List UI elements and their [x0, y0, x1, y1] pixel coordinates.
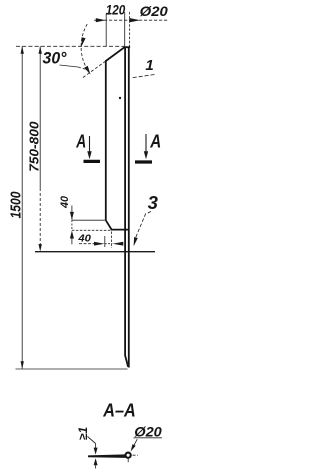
ground line	[35, 251, 155, 253]
svg-text:≥1: ≥1	[76, 427, 90, 441]
svg-text:30°: 30°	[43, 50, 67, 68]
30 deg arc	[81, 24, 89, 73]
30 deg leader dashed continuation	[78, 67, 88, 70]
dimension 40 horizontal	[79, 243, 94, 245]
dimension 120 line	[94, 19, 168, 21]
diameter 20 leader	[133, 439, 138, 448]
svg-text:120: 120	[106, 2, 126, 18]
svg-text:750-800: 750-800	[26, 121, 41, 172]
svg-text:A: A	[149, 130, 161, 151]
30 deg arrow on horizontal	[82, 37, 86, 46]
leader for label 3	[136, 212, 151, 238]
rod item 3 right edge	[128, 47, 130, 367]
svg-text:Ø20: Ø20	[140, 3, 168, 19]
extension line rod right	[129, 12, 131, 47]
top level extension line	[16, 45, 125, 47]
circle centerline bottom	[127, 459, 129, 462]
thickness dim >=1 top arrow	[88, 437, 96, 444]
svg-text:1: 1	[145, 57, 153, 74]
rod cross-section circle	[126, 453, 131, 458]
rod item 3 left edge	[125, 47, 128, 367]
dimension 750-800 line	[39, 46, 41, 188]
svg-text:A–A: A–A	[102, 400, 135, 421]
chamfer extension dashed	[83, 61, 107, 78]
dimension 120 right arrow	[129, 18, 140, 22]
bottom tip extension line	[16, 368, 128, 370]
30 deg arrow on chamfer extension	[84, 66, 90, 75]
30 deg leader underline	[60, 65, 79, 67]
leader for label 1	[132, 75, 155, 78]
thickness dim >=1 bottom arrow	[94, 458, 98, 465]
extension line rod left	[124, 12, 126, 47]
svg-text:3: 3	[148, 192, 159, 213]
svg-text:40: 40	[59, 195, 71, 209]
svg-text:1500: 1500	[7, 191, 24, 219]
section cut mark left	[84, 160, 101, 163]
extension line chamfer start down	[104, 236, 106, 247]
extension line chamfer top	[72, 219, 106, 221]
plate cross-section bar	[88, 454, 126, 458]
diameter 20 underline	[134, 437, 163, 439]
extension line plate bottom left	[72, 229, 111, 231]
svg-text:Ø20: Ø20	[134, 423, 162, 439]
dimension 120 left arrow	[96, 18, 106, 22]
svg-text:40: 40	[77, 232, 91, 244]
circle centerline right	[133, 454, 138, 456]
section cut mark right	[135, 160, 152, 163]
dimension 40 vertical	[71, 206, 73, 220]
extension line plate left top	[105, 14, 107, 47]
plate hole dot	[119, 97, 121, 99]
extension line chamfer end down	[110, 232, 112, 249]
plate item 1 outline	[106, 47, 130, 229]
svg-text:A: A	[75, 130, 86, 151]
dimension 1500 line	[21, 46, 23, 369]
